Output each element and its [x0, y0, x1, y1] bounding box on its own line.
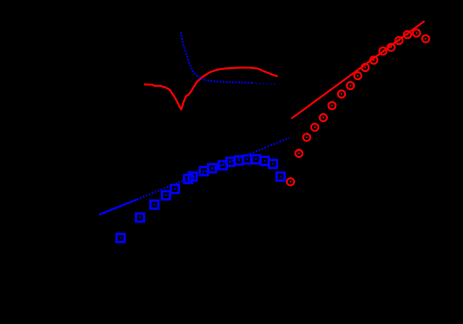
red circle marker 15 [404, 31, 411, 38]
red circle marker 1 [287, 178, 294, 185]
blue square marker 4 [162, 191, 170, 199]
blue square marker 12 [235, 156, 243, 164]
red fit line [292, 21, 425, 119]
red circle marker 2 [295, 150, 302, 157]
blue fit line (dotted right segment) [137, 138, 289, 199]
red circle marker 16 [413, 29, 420, 36]
blue square marker 9 [208, 164, 216, 172]
blue square marker 14 [252, 155, 260, 163]
red circle marker 10 [362, 64, 369, 71]
blue square marker 15 [261, 157, 269, 165]
red circle marker 3 [303, 134, 310, 141]
blue square marker 5 [171, 185, 179, 193]
red circle marker 6 [328, 102, 335, 109]
red circle marker 8 [347, 82, 354, 89]
red circle marker 7 [338, 90, 345, 97]
red circle marker 17 [422, 35, 429, 42]
inset blue dotted curve (steep part) [181, 32, 252, 83]
red circle marker 12 [379, 47, 386, 54]
blue square marker 3 [150, 201, 158, 209]
red circle marker 11 [370, 56, 377, 63]
blue square marker 6 [184, 175, 192, 183]
blue square marker 11 [226, 158, 234, 166]
inset red solid curve [145, 68, 277, 110]
blue square marker 2 [136, 214, 144, 222]
blue square marker 10 [219, 161, 227, 169]
blue square marker 17 [277, 173, 285, 181]
blue square marker 16 [269, 160, 277, 168]
red circle marker 9 [354, 72, 361, 79]
blue fit line (dense left segment) [99, 199, 137, 214]
blue square marker 8 [200, 167, 208, 175]
red circle marker 4 [311, 124, 318, 131]
blue square marker 1 [117, 234, 125, 242]
red circle marker 13 [387, 44, 394, 51]
blue square marker 7 [189, 172, 197, 180]
red circle marker 14 [395, 37, 402, 44]
red circle marker 5 [320, 114, 327, 121]
blue square marker 13 [243, 155, 251, 163]
inset blue dotted curve (faint tail) [252, 83, 276, 84]
